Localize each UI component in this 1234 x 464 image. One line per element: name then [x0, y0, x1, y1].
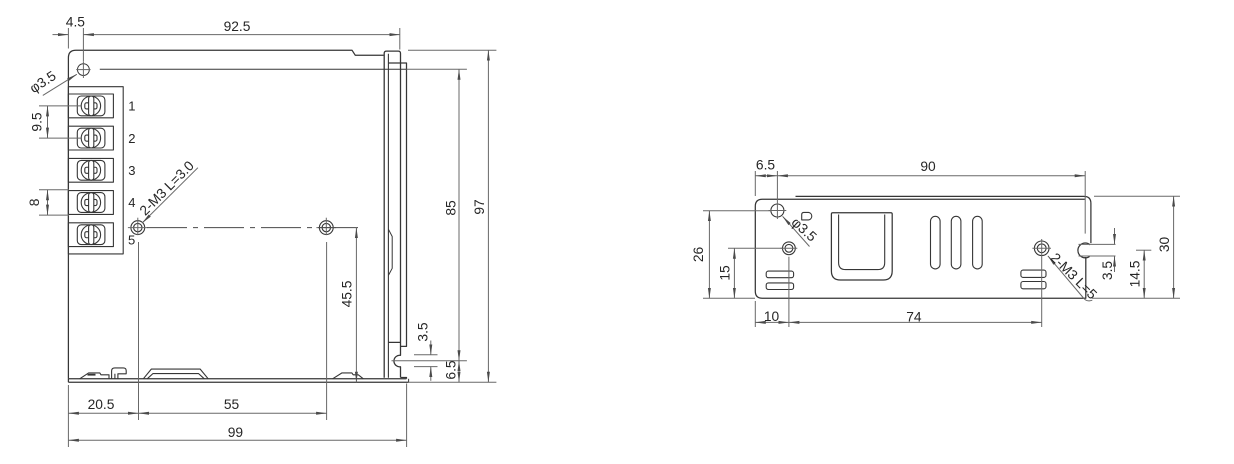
- leader phi 3.5 (side view): [783, 215, 820, 247]
- svg-text:2-M3 L=3.0: 2-M3 L=3.0: [137, 158, 197, 218]
- dim 97: [408, 50, 496, 382]
- AC socket cutout: [831, 213, 892, 280]
- dim 55 (bottom): [139, 242, 327, 420]
- svg-text:6.5: 6.5: [443, 360, 458, 380]
- dim 4.5 (top): [53, 15, 86, 61]
- dim 15 (side left): [717, 248, 782, 298]
- terminal cell 4: [68, 191, 113, 215]
- terminal number 3: [128, 163, 135, 178]
- svg-text:99: 99: [228, 425, 244, 440]
- case outline top view: [68, 50, 383, 379]
- leader phi 3.5 (left view): [27, 68, 77, 96]
- dim 26 (side left): [691, 211, 772, 299]
- side mounting hole 2-M3: [1032, 239, 1051, 258]
- dim 45.5: [339, 228, 356, 383]
- terminal number 1: [128, 99, 135, 114]
- dim 14.5 (side right): [1092, 250, 1180, 298]
- bottom foot A (ramp + hook): [80, 368, 127, 379]
- svg-text:3: 3: [128, 163, 135, 178]
- leader 2-M3 L=3.0: [137, 158, 198, 223]
- dim 90 (side top): [777, 159, 1085, 234]
- right cover flange: [384, 51, 400, 378]
- bottom foot C (ramp): [333, 373, 364, 379]
- terminal cell 5: [68, 223, 113, 247]
- left vent slot pair: [766, 271, 793, 289]
- dim 6.5 (side hole height, left view): [392, 360, 467, 382]
- svg-text:6.5: 6.5: [756, 157, 776, 172]
- terminal cell 3: [68, 158, 113, 182]
- svg-text:74: 74: [906, 309, 922, 324]
- side phi3.5 hole: [769, 204, 787, 217]
- case bottom edge (double line): [68, 379, 408, 382]
- svg-text:45.5: 45.5: [339, 280, 354, 307]
- dim 74 (side bottom): [789, 258, 1042, 327]
- svg-text:3.5: 3.5: [1100, 261, 1115, 281]
- dim 6.5 (side top): [755, 157, 777, 219]
- pcb mounting hole A: [128, 218, 148, 236]
- dim 10 (side bottom): [755, 257, 789, 327]
- svg-text:90: 90: [920, 159, 936, 174]
- svg-text:9.5: 9.5: [29, 112, 44, 132]
- terminal number 2: [128, 131, 135, 146]
- dim 9.5 (terminal pitch): [29, 106, 81, 138]
- dim 30 (side right): [1094, 196, 1180, 298]
- dim 3.5 (side notch): [1079, 228, 1116, 280]
- leader 2-M3 L=5: [1048, 250, 1100, 302]
- inner front wall line: [100, 68, 407, 70]
- svg-text:4: 4: [128, 195, 135, 210]
- svg-text:15: 15: [717, 265, 732, 281]
- svg-text:20.5: 20.5: [88, 397, 115, 412]
- terminal number 4: [128, 195, 135, 210]
- svg-text:φ3.5: φ3.5: [27, 68, 59, 96]
- svg-text:30: 30: [1157, 237, 1172, 253]
- terminal number 5: [128, 232, 135, 247]
- svg-text:2: 2: [128, 131, 135, 146]
- svg-text:14.5: 14.5: [1127, 260, 1142, 287]
- small D-shaped hole: [802, 212, 812, 220]
- three vertical vent slots: [931, 216, 983, 269]
- svg-text:2-M3 L=5: 2-M3 L=5: [1048, 250, 1100, 302]
- corner mounting hole (phi 3.5): [76, 61, 90, 78]
- potentiometer hole: [781, 242, 798, 255]
- terminal block outer rect: [68, 87, 123, 254]
- bottom foot B (wide emboss): [143, 369, 208, 379]
- pcb mounting hole B: [316, 218, 336, 236]
- right vent slot pair: [1021, 270, 1046, 289]
- svg-text:5: 5: [128, 232, 135, 247]
- svg-text:26: 26: [691, 247, 706, 263]
- side louver seen edge-on: [388, 229, 392, 275]
- terminal cell 2: [68, 126, 113, 150]
- terminal cell 1: [68, 94, 113, 118]
- dim 8 (terminal pitch): [27, 190, 69, 215]
- dim 99 (bottom): [68, 384, 406, 448]
- svg-text:1: 1: [128, 99, 135, 114]
- svg-text:3.5: 3.5: [415, 322, 430, 342]
- chassis right wall: [388, 63, 406, 379]
- side view outline: [755, 196, 1098, 298]
- dim 85: [406, 69, 467, 360]
- svg-text:8: 8: [27, 198, 42, 206]
- svg-text:85: 85: [443, 200, 458, 216]
- dim 20.5 (bottom): [68, 242, 138, 447]
- svg-text:4.5: 4.5: [66, 15, 86, 30]
- svg-text:55: 55: [224, 397, 240, 412]
- svg-text:97: 97: [472, 199, 487, 214]
- center line between holes: [147, 227, 364, 229]
- svg-text:10: 10: [764, 309, 780, 324]
- svg-text:92.5: 92.5: [224, 19, 251, 34]
- dim 3.5 (side hole, left view): [414, 322, 438, 381]
- dim 92.5 (top): [83, 19, 399, 49]
